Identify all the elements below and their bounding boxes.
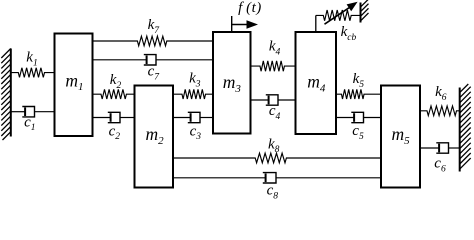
spring k_cb [316,10,361,21]
svg-text:k8: k8 [268,136,280,155]
spring k8 [173,153,381,163]
svg-text:c8: c8 [267,183,279,199]
svg-text:c3: c3 [190,123,202,142]
damper c1 [11,111,25,113]
spring k_cb riser wire [315,15,317,31]
k_cb variability arrow [325,2,358,24]
spring k5 [336,89,381,99]
spring k7 [93,36,214,46]
svg-text:k3: k3 [189,71,201,90]
mass m1 [55,34,93,137]
svg-text:c6: c6 [434,156,446,175]
damper c3 [173,117,191,119]
damper c7 [93,59,147,61]
left wall [10,49,12,137]
svg-text:c4: c4 [269,103,281,122]
svg-text:c7: c7 [148,64,161,83]
mass m5 [381,86,420,188]
svg-text:c5: c5 [352,123,364,142]
svg-text:k6: k6 [435,84,447,103]
mass m2 [135,86,174,188]
top wall (for k_cb) [361,0,369,7]
spring k2 [93,89,135,99]
spring k1 [11,68,55,78]
svg-text:kcb: kcb [341,24,357,43]
damper c8 [173,177,266,179]
spring k3 [173,89,213,99]
svg-text:k5: k5 [353,71,365,90]
damper c2 [93,117,111,119]
right wall [460,84,469,93]
svg-text:f (t): f (t) [238,0,262,16]
svg-text:k2: k2 [110,72,122,91]
svg-text:c2: c2 [109,123,121,142]
svg-text:k7: k7 [148,17,161,36]
svg-text:k4: k4 [269,39,281,58]
damper c5 [336,117,354,119]
damper c4 [251,99,269,101]
mass m3 [213,32,251,134]
damper c6 [420,147,439,149]
spring k6 [420,106,460,116]
spring k4 [251,61,296,71]
force f(t) arrow [232,16,258,33]
mass m4 [296,32,337,134]
svg-text:k1: k1 [26,50,37,69]
